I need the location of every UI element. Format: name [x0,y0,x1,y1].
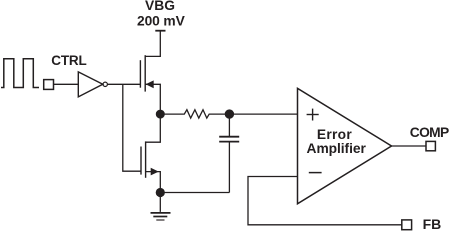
svg-text:CTRL: CTRL [51,53,87,68]
svg-text:Amplifier: Amplifier [307,141,367,156]
svg-text:COMP: COMP [410,125,450,140]
svg-text:FB: FB [423,216,442,232]
svg-text:VBG: VBG [145,0,175,13]
svg-text:200 mV: 200 mV [137,14,186,29]
